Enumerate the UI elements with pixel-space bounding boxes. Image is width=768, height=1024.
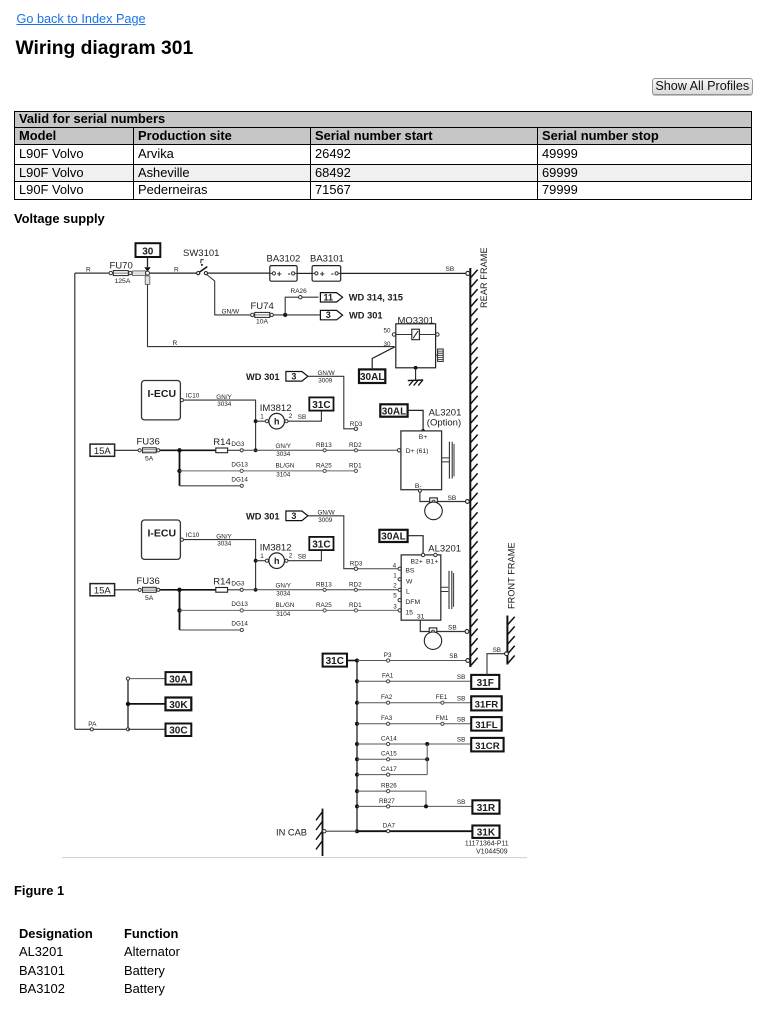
- wire SB IM3812 to 31C (section 1): [288, 411, 321, 422]
- connector RD3 (section 2): [350, 560, 363, 570]
- svg-text:10A: 10A: [256, 319, 269, 326]
- distribution bus for 30A/30K/30C: [126, 680, 129, 731]
- svg-text:30K: 30K: [169, 700, 188, 711]
- svg-text:FU36: FU36: [137, 437, 160, 448]
- svg-text:h: h: [274, 556, 280, 566]
- svg-text:R: R: [174, 266, 179, 273]
- svg-text:B1+: B1+: [426, 559, 438, 566]
- wire SB 31F to front frame: [487, 647, 508, 675]
- junction ladder bus / RB27: [355, 804, 359, 808]
- svg-text:RA25: RA25: [316, 462, 332, 469]
- svg-text:SB: SB: [446, 266, 455, 273]
- svg-text:BA3102: BA3102: [267, 254, 301, 265]
- svg-text:30: 30: [142, 246, 154, 257]
- ground rail IN CAB: [276, 809, 323, 856]
- wire junction to switch SW3101: [150, 266, 197, 273]
- wire DA7 from IN CAB to 31K (bold): [323, 823, 473, 833]
- svg-text:REAR FRAME: REAR FRAME: [479, 247, 489, 308]
- svg-text:DG14: DG14: [231, 476, 248, 483]
- fuse FU74: [251, 301, 274, 326]
- svg-text:31CR: 31CR: [475, 741, 500, 752]
- svg-text:IC10: IC10: [186, 532, 200, 539]
- svg-text:5A: 5A: [145, 456, 154, 463]
- svg-text:BA3101: BA3101: [310, 254, 344, 265]
- svg-text:(Option): (Option): [427, 417, 461, 428]
- connector pennant 3 to WD 301: [320, 310, 382, 320]
- wire FU74 to junction: [273, 314, 320, 316]
- svg-text:R14: R14: [213, 576, 230, 587]
- svg-text:30AL: 30AL: [382, 406, 406, 417]
- ground stud under AL3201 (lower): [424, 628, 441, 650]
- svg-text:2: 2: [393, 583, 397, 590]
- svg-text:3009: 3009: [318, 377, 333, 384]
- svg-text:31K: 31K: [477, 828, 496, 839]
- wire FU36 to junction (section 1): [160, 448, 216, 452]
- svg-text:RA26: RA26: [291, 288, 308, 295]
- motor gear symbol of MO3301: [436, 349, 444, 361]
- svg-text:IM3812: IM3812: [260, 543, 292, 554]
- svg-text:WD 301: WD 301: [349, 310, 383, 320]
- svg-text:FA2: FA2: [381, 694, 393, 701]
- instrument IM3812 hourmeter (section 1): [256, 403, 293, 429]
- svg-text:D+ (61): D+ (61): [406, 448, 429, 455]
- svg-text:30C: 30C: [169, 726, 187, 737]
- junction ladder bus / CA17: [355, 773, 359, 777]
- wire FU36 to junction (section 2): [160, 588, 216, 592]
- wire CA17: [357, 766, 427, 776]
- terminal box 31C (section 1): [309, 397, 333, 411]
- svg-text:V1044509: V1044509: [476, 849, 508, 856]
- wire bold branch below FU36 junction (section 1): [177, 450, 181, 486]
- svg-text:L: L: [406, 588, 410, 595]
- chassis ground under MO3301: [408, 380, 423, 386]
- svg-text:WD 301: WD 301: [246, 372, 280, 382]
- wire to 30C: [128, 728, 166, 730]
- ECU I-ECU (section 2): [142, 520, 200, 559]
- svg-text:31FL: 31FL: [475, 720, 498, 731]
- terminal box 30C: [166, 724, 192, 737]
- battery BA3102: [267, 254, 301, 282]
- wire RB26: [357, 783, 426, 793]
- svg-text:3034: 3034: [276, 451, 291, 458]
- svg-text:3: 3: [393, 603, 397, 610]
- svg-text:SB: SB: [298, 554, 306, 561]
- svg-text:PA: PA: [88, 721, 97, 728]
- svg-text:SB: SB: [457, 674, 465, 681]
- switch SW3101: [183, 248, 219, 275]
- svg-text:3034: 3034: [276, 591, 291, 598]
- svg-text:P3: P3: [384, 652, 392, 659]
- svg-text:SB: SB: [457, 717, 465, 724]
- svg-text:50: 50: [384, 327, 392, 334]
- svg-text:RB26: RB26: [381, 783, 397, 790]
- svg-text:3104: 3104: [276, 611, 291, 618]
- svg-text:FRONT FRAME: FRONT FRAME: [507, 542, 517, 609]
- svg-text:3009: 3009: [318, 517, 333, 524]
- svg-text:DA7: DA7: [383, 823, 396, 830]
- svg-text:3034: 3034: [217, 401, 232, 408]
- wire GN/W from switch to fuse FU74: [207, 275, 251, 316]
- svg-text:I-ECU: I-ECU: [148, 528, 177, 540]
- svg-text:SB: SB: [298, 414, 306, 421]
- wire FA3 / FM1 / SB to 31FL: [357, 715, 471, 725]
- svg-text:RD2: RD2: [349, 442, 362, 449]
- svg-text:GN/Y: GN/Y: [216, 534, 232, 541]
- svg-text:11: 11: [324, 292, 334, 302]
- wire CA14 / SB to 31CR: [357, 735, 471, 746]
- svg-text:3034: 3034: [217, 541, 232, 548]
- terminal box 15A (section 2): [90, 584, 115, 597]
- terminal box 30A: [166, 672, 192, 685]
- terminal box 15A (section 1): [90, 444, 115, 457]
- junction at FU74 output: [283, 313, 287, 317]
- svg-text:31C: 31C: [312, 540, 330, 551]
- svg-text:SB: SB: [449, 653, 457, 660]
- svg-text:30: 30: [384, 341, 392, 348]
- wire RA26 branch up to connector 11: [285, 288, 318, 315]
- tie bar CA14-CA17: [426, 744, 428, 775]
- svg-text:CA14: CA14: [381, 735, 397, 742]
- svg-text:W: W: [406, 578, 413, 585]
- svg-text:-: -: [331, 268, 334, 278]
- resistor R14 (section 2): [213, 576, 230, 592]
- svg-text:-: -: [288, 268, 291, 278]
- svg-text:AL3201: AL3201: [428, 544, 461, 555]
- svg-text:B+: B+: [419, 434, 428, 441]
- junction ladder bus / DA7: [355, 829, 359, 833]
- svg-text:DFM: DFM: [405, 599, 420, 606]
- terminal box 30AL (upper alternator): [380, 404, 407, 417]
- connector RD3 (section 1): [350, 421, 363, 431]
- svg-text:31: 31: [417, 614, 425, 621]
- battery BA3101: [310, 254, 344, 282]
- svg-text:SB: SB: [457, 695, 465, 702]
- svg-text:R: R: [173, 340, 178, 347]
- fuse FU36 (section 2): [137, 576, 160, 602]
- svg-text:+: +: [277, 269, 282, 279]
- svg-text:BL/GN: BL/GN: [276, 602, 295, 609]
- wire DG13 / BL/GN 3104 (section 1): [180, 462, 363, 479]
- wire SB pin 31 to rear frame (lower): [420, 620, 469, 633]
- wire R to relay MO3301 pin 30: [148, 284, 395, 347]
- wire RD3 to pin 4 BS (lower): [358, 568, 399, 570]
- svg-text:DG13: DG13: [231, 462, 248, 469]
- svg-text:IC10: IC10: [186, 393, 200, 400]
- terminal box 31FL: [471, 717, 502, 731]
- svg-text:SB: SB: [457, 737, 465, 744]
- svg-text:30AL: 30AL: [381, 532, 405, 543]
- svg-text:RD3: RD3: [350, 421, 363, 428]
- alternator AL3201 (Option): [397, 408, 461, 491]
- connector pennant 3 WD 301 (section 1): [246, 372, 308, 383]
- junction ladder bus / RB26: [355, 789, 359, 793]
- ground rail REAR FRAME: [470, 247, 489, 667]
- ground rail FRONT FRAME: [507, 542, 517, 664]
- svg-text:DG14: DG14: [231, 621, 248, 628]
- wire DG14 stub (section 1): [180, 476, 249, 487]
- svg-text:31R: 31R: [477, 803, 496, 814]
- svg-text:31C: 31C: [312, 400, 330, 411]
- wire P3 / SB to rear frame: [357, 652, 470, 662]
- svg-text:31FR: 31FR: [475, 700, 499, 711]
- wire bold branch below FU36 junction (section 2): [177, 590, 181, 630]
- svg-text:GN/Y: GN/Y: [216, 394, 232, 401]
- wire DG13 / BL/GN 3104 (section 2): [180, 601, 399, 618]
- svg-text:3: 3: [326, 310, 331, 320]
- svg-text:h: h: [274, 417, 280, 427]
- svg-text:125A: 125A: [115, 278, 131, 285]
- svg-text:FU70: FU70: [110, 261, 133, 272]
- terminal box 31C (section 2): [309, 537, 333, 551]
- svg-text:15A: 15A: [94, 446, 112, 457]
- svg-text:SW3101: SW3101: [183, 248, 219, 259]
- tie bar RB26-RB27: [425, 791, 427, 806]
- svg-text:FU36: FU36: [137, 576, 160, 587]
- svg-text:R: R: [86, 266, 91, 273]
- ladder bus vertical: [356, 661, 358, 832]
- svg-text:GN/Y: GN/Y: [276, 443, 292, 450]
- svg-text:5: 5: [393, 593, 397, 600]
- diagram bottom edge: [62, 857, 527, 859]
- wire 30AL to B+ (upper): [408, 410, 425, 432]
- fuse FU70: [109, 261, 133, 286]
- svg-text:SB: SB: [448, 495, 457, 502]
- terminal box 30AL (lower alternator): [379, 530, 407, 543]
- svg-text:RD3: RD3: [350, 560, 363, 567]
- wire MO3301 to ground: [414, 366, 418, 380]
- fuse FU36 (section 1): [137, 437, 160, 463]
- junction ladder bus / FA2: [355, 701, 359, 705]
- svg-text:+: +: [320, 269, 325, 279]
- svg-text:15A: 15A: [94, 586, 112, 597]
- junction ladder bus / FA1: [355, 679, 359, 683]
- junction ladder bus / P3: [355, 659, 359, 663]
- svg-text:RA25: RA25: [316, 602, 332, 609]
- svg-text:B2+: B2+: [411, 559, 423, 566]
- wire GN/Y 3034 from IC10 (section 2): [184, 534, 258, 592]
- instrument IM3812 hourmeter (section 2): [256, 543, 293, 569]
- wire GN/Y 3034 to alternator D+/L (section 2): [243, 581, 398, 597]
- svg-text:DG3: DG3: [231, 441, 244, 448]
- svg-text:GN/W: GN/W: [222, 308, 241, 315]
- wire R14 to DG3 (section 2): [228, 581, 245, 592]
- terminal box 30K: [166, 698, 192, 711]
- connector pennant 11 to WD 314, 315: [320, 292, 403, 302]
- alternator AL3201 (lower): [393, 544, 461, 621]
- svg-text:11171364-P11: 11171364-P11: [465, 841, 509, 848]
- wire 30AL to MO3301 pin 30: [372, 347, 395, 370]
- svg-text:3: 3: [291, 511, 296, 521]
- junction ladder bus / CA15: [355, 757, 359, 761]
- node 30 terminal box: [136, 243, 161, 257]
- terminal box 31CR: [471, 738, 503, 752]
- svg-text:3: 3: [291, 372, 296, 382]
- ECU I-ECU (section 1): [142, 381, 200, 420]
- wire GN/Y 3034 to alternator D+/L (section 1): [243, 442, 399, 458]
- wire 15A to FU36 (section 1): [115, 449, 139, 451]
- pulley of AL3201 (lower): [441, 571, 454, 609]
- svg-text:3104: 3104: [276, 471, 291, 478]
- wire GN/W 3009 from pennant (section 1): [308, 370, 354, 429]
- wire GN/Y 3034 from IC10 (section 1): [184, 394, 258, 452]
- wire DG14 stub (section 2): [180, 621, 249, 632]
- svg-text:BL/GN: BL/GN: [276, 463, 295, 470]
- svg-text:CA17: CA17: [381, 766, 397, 773]
- relay MO3301: [384, 315, 440, 367]
- connector pennant 3 WD 301 (section 2): [246, 511, 308, 522]
- wire PA from left rail to distribution bus: [75, 721, 127, 731]
- wire switch to battery BA3102: [208, 272, 271, 274]
- svg-text:SB: SB: [457, 799, 465, 806]
- svg-text:31C: 31C: [326, 656, 344, 667]
- wire to 30A: [126, 677, 165, 680]
- svg-text:1: 1: [260, 413, 264, 420]
- wire RB27 / SB to 31R: [357, 798, 472, 809]
- svg-text:30AL: 30AL: [360, 372, 384, 383]
- junction ladder bus / FA3: [355, 722, 359, 726]
- wire BA3102 to BA3101: [297, 272, 312, 274]
- junction ladder bus / CA14: [355, 742, 359, 746]
- svg-text:I-ECU: I-ECU: [148, 388, 177, 400]
- svg-text:15: 15: [405, 609, 413, 616]
- svg-text:FA1: FA1: [382, 673, 394, 680]
- terminal box 31C (ladder feed): [323, 654, 347, 668]
- svg-text:5A: 5A: [145, 595, 154, 602]
- wire FA1 / SB to 31F: [357, 673, 471, 683]
- wire 31C to ladder bus: [347, 660, 357, 662]
- svg-text:SB: SB: [493, 647, 501, 654]
- wire 30AL to B2+ (lower): [408, 536, 424, 553]
- svg-text:RB27: RB27: [379, 798, 395, 805]
- wire 15A to FU36 (section 2): [115, 589, 139, 591]
- svg-text:CA15: CA15: [381, 751, 397, 758]
- svg-text:GN/Y: GN/Y: [276, 583, 292, 590]
- svg-text:GN/W: GN/W: [318, 510, 335, 517]
- svg-text:FU74: FU74: [251, 301, 274, 312]
- terminal box 30AL (at MO3301): [359, 369, 385, 383]
- drawing number label: [465, 841, 509, 856]
- wire GN/W 3009 from pennant (section 2): [308, 510, 354, 569]
- resistor R14 (section 1): [213, 437, 230, 453]
- wire to 30K (bold): [126, 702, 166, 706]
- svg-text:DG3: DG3: [231, 581, 244, 588]
- wire R14 to DG3 (section 1): [228, 441, 245, 452]
- svg-text:FE1: FE1: [436, 694, 448, 701]
- wire R main feed left: [75, 266, 109, 273]
- connector sleeve at node 30 junction: [133, 271, 150, 285]
- wire FA2 / FE1 / SB to 31FR: [357, 694, 471, 704]
- svg-text:RD1: RD1: [349, 462, 362, 469]
- wire CA15: [357, 751, 429, 762]
- wire SB B- to rear frame (upper): [418, 489, 469, 503]
- pulley of AL3201 (upper): [442, 442, 454, 479]
- svg-text:30A: 30A: [169, 674, 187, 685]
- svg-text:WD 301: WD 301: [246, 512, 280, 522]
- wire SB battery to rear frame: [341, 266, 470, 275]
- terminal box 31FR: [471, 696, 502, 710]
- svg-text:31F: 31F: [477, 678, 494, 689]
- svg-text:R14: R14: [213, 437, 230, 448]
- svg-text:FM1: FM1: [436, 715, 449, 722]
- svg-text:2: 2: [289, 553, 293, 560]
- wire SB IM3812 to 31C (section 2): [288, 550, 321, 561]
- wire left vertical rail to PA: [74, 273, 76, 729]
- svg-text:FA3: FA3: [381, 715, 393, 722]
- terminal box 31R: [472, 800, 499, 814]
- svg-text:RD1: RD1: [349, 602, 362, 609]
- svg-text:RB13: RB13: [316, 581, 332, 588]
- svg-text:SB: SB: [448, 625, 457, 632]
- terminal box 31F: [471, 675, 499, 689]
- terminal box 31K: [472, 826, 499, 839]
- svg-text:RB13: RB13: [316, 442, 332, 449]
- ground stud under AL3201 (upper): [425, 498, 443, 520]
- svg-text:1: 1: [393, 572, 397, 579]
- svg-text:2: 2: [289, 413, 293, 420]
- svg-text:IN CAB: IN CAB: [276, 828, 307, 838]
- svg-text:WD 314, 315: WD 314, 315: [349, 293, 403, 303]
- wire from 30 box down to junction: [144, 257, 150, 272]
- svg-text:RD2: RD2: [349, 581, 362, 588]
- svg-text:IM3812: IM3812: [260, 403, 292, 414]
- svg-text:GN/W: GN/W: [318, 370, 335, 377]
- svg-text:DG13: DG13: [231, 601, 248, 608]
- svg-text:BS: BS: [405, 567, 415, 574]
- svg-text:1: 1: [260, 553, 264, 560]
